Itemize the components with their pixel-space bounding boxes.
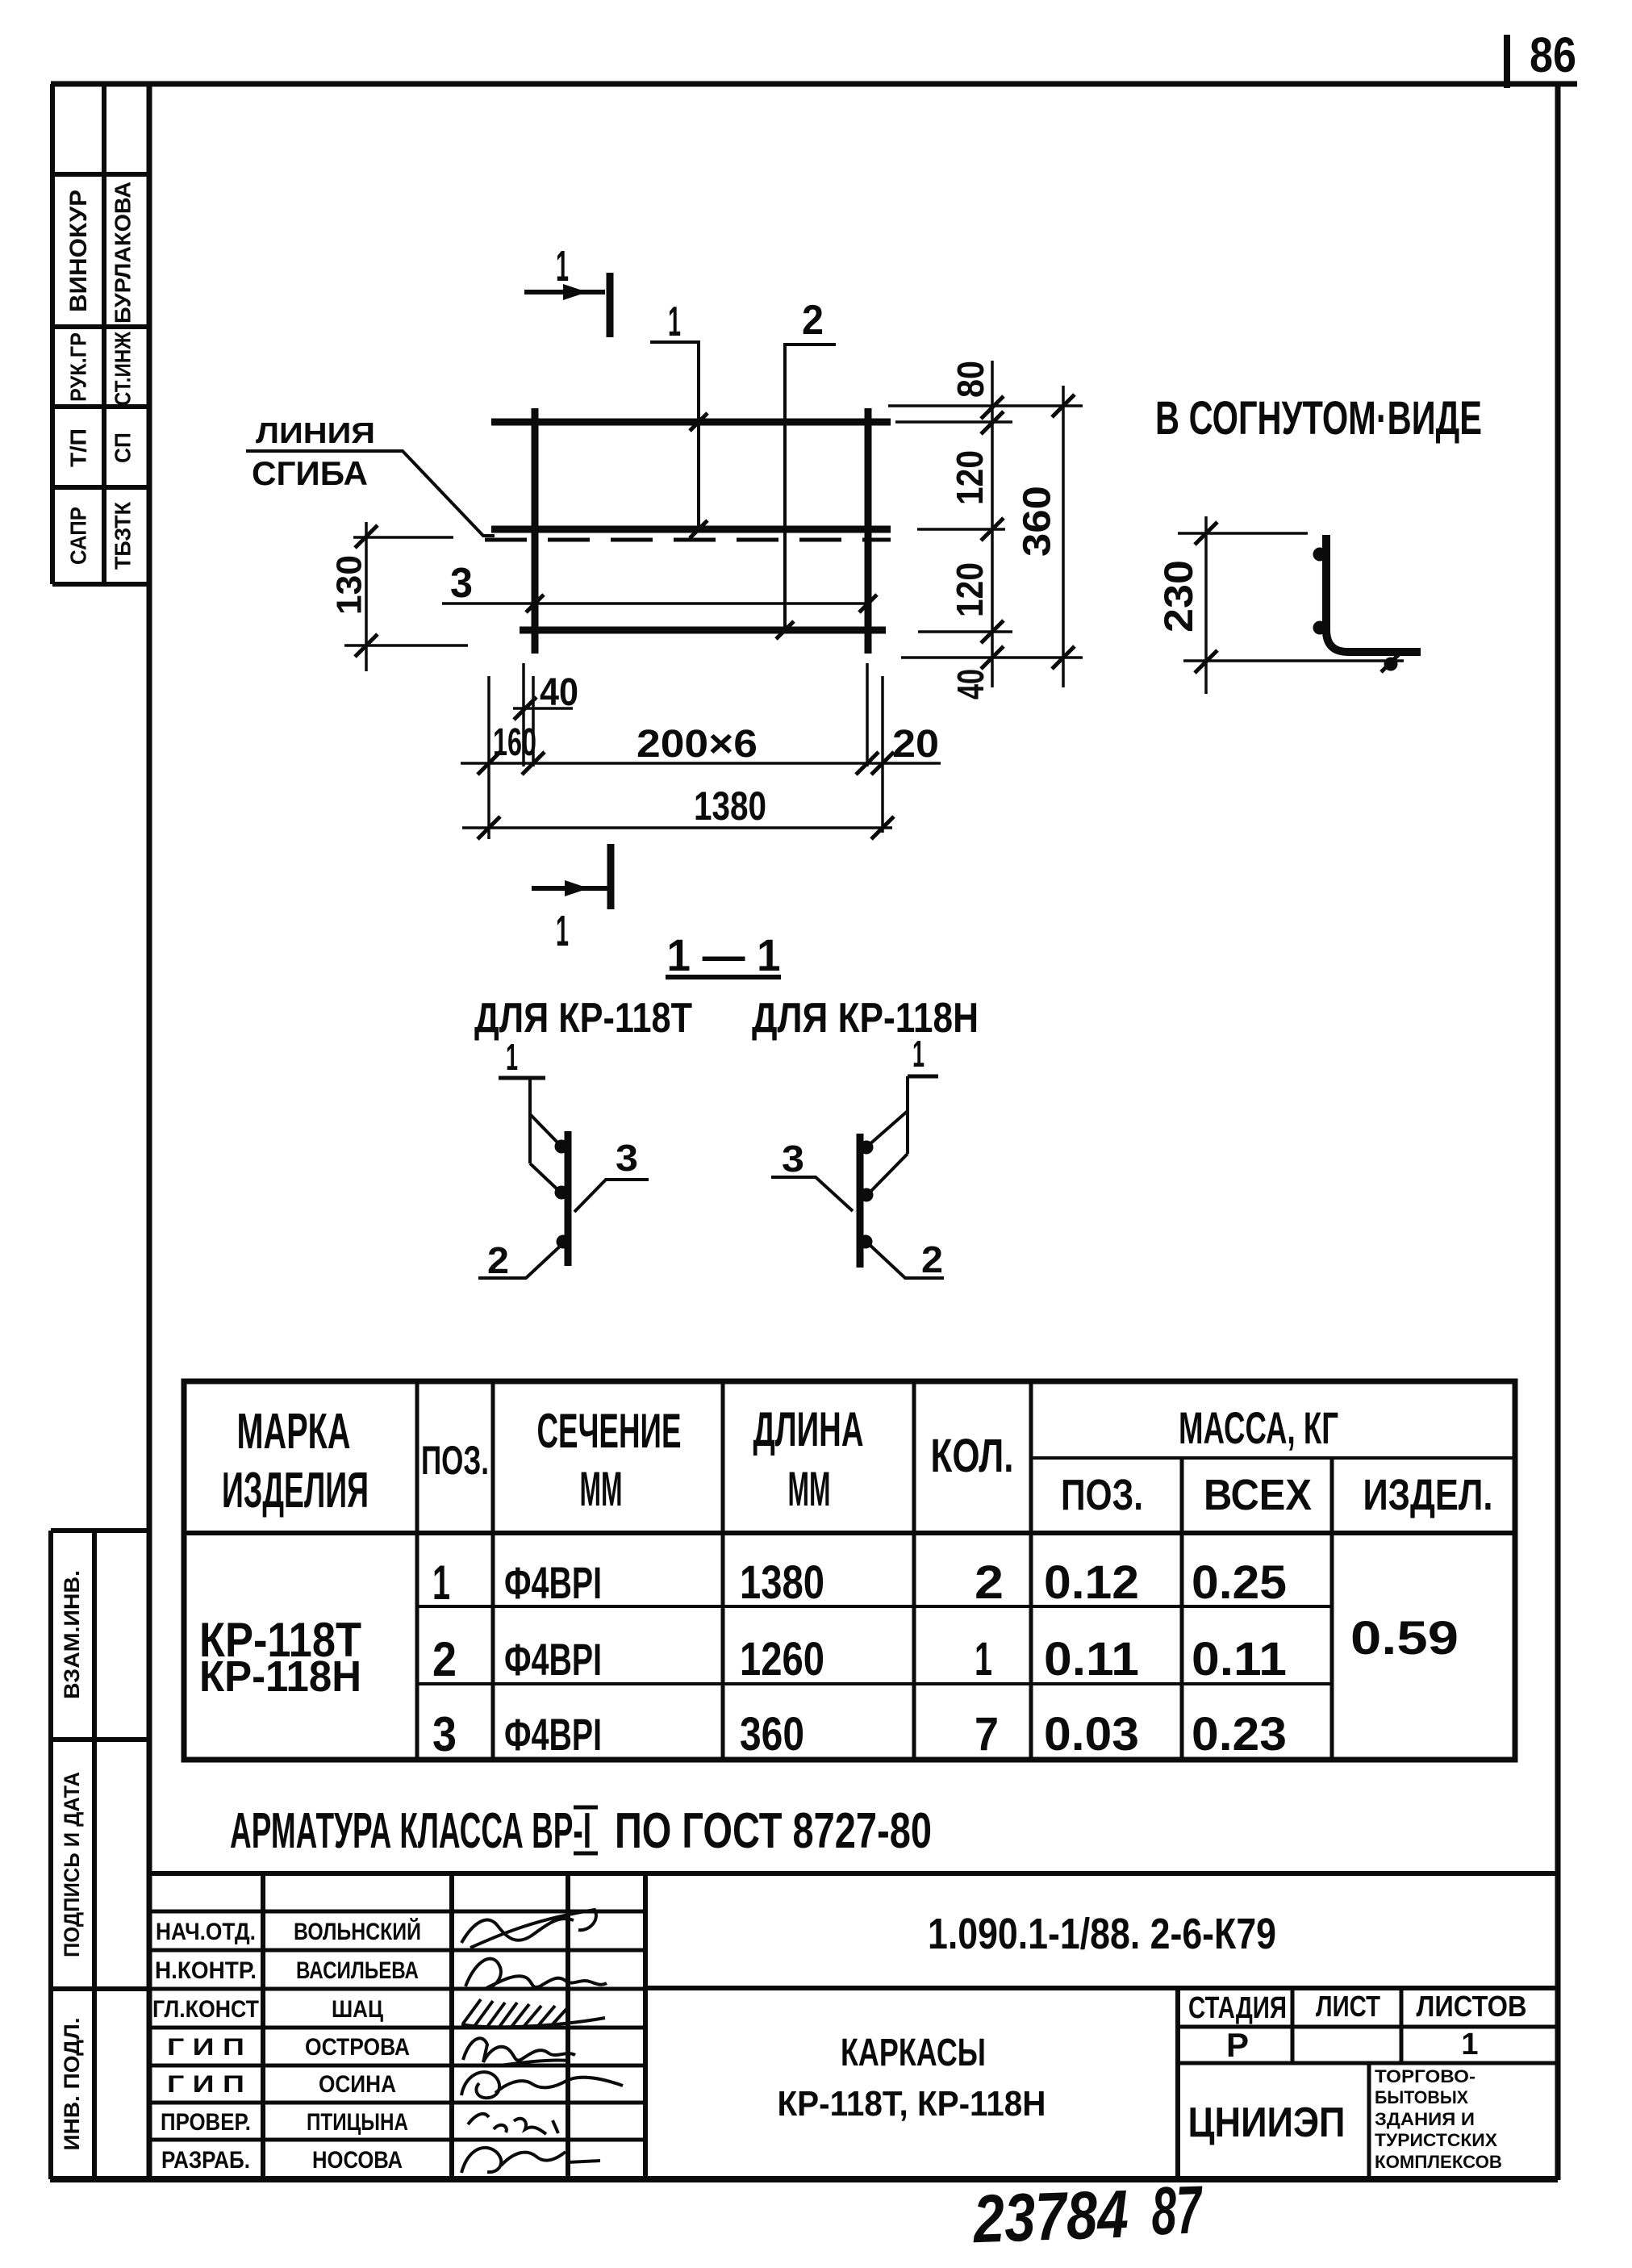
svg-text:ИЗДЕЛ.: ИЗДЕЛ. — [1363, 1471, 1493, 1519]
extension lines (right side) — [888, 406, 1083, 658]
svg-text:СТ.ИНЖ: СТ.ИНЖ — [110, 331, 135, 406]
table header texts — [222, 1402, 1493, 1519]
dimension 130 (left) — [330, 522, 468, 671]
svg-text:НАЧ.ОТД.: НАЧ.ОТД. — [156, 1919, 256, 1945]
cross bar 3 (cut, right figure) — [857, 1134, 864, 1268]
svg-text:ЛИНИЯ: ЛИНИЯ — [256, 416, 375, 449]
svg-text:87: 87 — [1150, 2171, 1204, 2249]
svg-text:2: 2 — [975, 1556, 1004, 1609]
bar position 3 (left cross bar) — [532, 408, 539, 654]
signature ШАЦ — [461, 1999, 605, 2027]
specification table grid — [184, 1381, 1515, 1760]
section mark 1 (top) — [524, 242, 610, 337]
label ЛИНИЯ СГИБА — [252, 416, 375, 492]
svg-text:БЫТОВЫХ: БЫТОВЫХ — [1375, 2087, 1468, 2107]
fold line (dashed) — [485, 538, 891, 542]
svg-text:1: 1 — [556, 242, 569, 290]
section figure KR-118T — [478, 1036, 649, 1281]
dimension line 160 / 200x6 / 20 — [461, 721, 941, 775]
svg-text:Ф4ВРI: Ф4ВРI — [504, 1557, 602, 1608]
svg-text:ПОЗ.: ПОЗ. — [421, 1438, 489, 1483]
svg-text:Т/П: Т/П — [65, 428, 90, 467]
svg-text:КОМПЛЕКСОВ: КОМПЛЕКСОВ — [1375, 2152, 1502, 2172]
svg-text:АРМАТУРА КЛАССА ВР-I: АРМАТУРА КЛАССА ВР-I — [230, 1803, 591, 1859]
svg-text:1 — 1: 1 — 1 — [667, 929, 781, 980]
svg-text:КАРКАСЫ: КАРКАСЫ — [841, 2032, 986, 2074]
svg-text:2: 2 — [921, 1238, 943, 1280]
svg-text:0.12: 0.12 — [1044, 1556, 1139, 1609]
svg-text:Р: Р — [1226, 2026, 1249, 2064]
title block role labels — [152, 1919, 259, 2174]
svg-text:1: 1 — [556, 907, 569, 955]
svg-text:МАССА, КГ: МАССА, КГ — [1179, 1402, 1338, 1453]
svg-text:ВОЛЬНСКИЙ: ВОЛЬНСКИЙ — [294, 1918, 421, 1945]
svg-text:БУРЛАКОВА: БУРЛАКОВА — [110, 182, 135, 324]
svg-text:1: 1 — [506, 1036, 518, 1078]
svg-text:ВЗАМ.ИНВ.: ВЗАМ.ИНВ. — [60, 1570, 84, 1699]
svg-text:В СОГНУТОМ·ВИДЕ: В СОГНУТОМ·ВИДЕ — [1155, 392, 1482, 445]
svg-text:ММ: ММ — [580, 1462, 623, 1516]
table row pos 2 — [432, 1632, 1287, 1686]
dimension 1380 (overall) — [462, 783, 894, 839]
note АРМАТУРА КЛАССА ВР-I ПО ГОСТ 8727-80 — [230, 1803, 932, 1859]
svg-text:ММ: ММ — [788, 1462, 831, 1516]
table row pos 3 — [432, 1707, 1287, 1761]
svg-text:1: 1 — [1461, 2028, 1478, 2061]
svg-text:КОЛ.: КОЛ. — [931, 1430, 1014, 1482]
bent view dimension 230 — [1156, 516, 1404, 694]
title block grid — [148, 1873, 1558, 2179]
svg-text:7: 7 — [975, 1708, 999, 1761]
signature НОСОВА — [461, 2148, 600, 2173]
bar position 1 (second longitudinal bar) — [491, 526, 891, 533]
svg-text:3: 3 — [450, 560, 473, 607]
signature ВОЛЬНСКИЙ — [461, 1910, 596, 1948]
svg-text:200×6: 200×6 — [637, 723, 758, 766]
svg-text:23784: 23784 — [970, 2176, 1129, 2258]
signature ВАСИЛЬЕВА — [465, 1959, 607, 1988]
svg-text:0.11: 0.11 — [1192, 1633, 1287, 1685]
organization department text — [1375, 2066, 1502, 2172]
svg-text:0.25: 0.25 — [1192, 1556, 1287, 1609]
svg-text:НОСОВА: НОСОВА — [312, 2147, 403, 2174]
svg-text:1.090.1-1/88. 2-6-К79: 1.090.1-1/88. 2-6-К79 — [928, 1910, 1276, 1958]
svg-text:Ф4ВРI: Ф4ВРI — [504, 1709, 602, 1760]
svg-text:СГИБА: СГИБА — [252, 454, 368, 492]
svg-text:120: 120 — [949, 450, 991, 505]
svg-text:ШАЦ: ШАЦ — [332, 1996, 383, 2023]
signature ОСИНА — [461, 2072, 623, 2098]
handwritten inventory number 23784 87 — [970, 2171, 1204, 2257]
signature ПТИЦЫНА — [468, 2114, 558, 2134]
bar section dot (upper) — [1313, 548, 1327, 562]
svg-text:Н.КОНТР.: Н.КОНТР. — [155, 1957, 257, 1984]
leader 2 to bottom bar — [776, 297, 836, 639]
svg-text:ЛИСТОВ: ЛИСТОВ — [1417, 1990, 1527, 2023]
svg-text:ПОДПИСЬ И ДАТА: ПОДПИСЬ И ДАТА — [60, 1772, 84, 1957]
svg-text:ПРОВЕР.: ПРОВЕР. — [161, 2109, 251, 2136]
bent bar (L-shape) — [1326, 535, 1421, 652]
cross bar 3 (cut, left figure) — [565, 1131, 572, 1266]
svg-text:ТУРИСТСКИХ: ТУРИСТСКИХ — [1375, 2130, 1497, 2150]
svg-text:0.23: 0.23 — [1192, 1708, 1287, 1761]
svg-text:СЕЧЕНИЕ: СЕЧЕНИЕ — [537, 1404, 682, 1458]
svg-text:1: 1 — [912, 1033, 925, 1075]
svg-text:ТБЗТК: ТБЗТК — [110, 501, 135, 570]
svg-text:160: 160 — [493, 721, 536, 764]
bottom extension lines — [489, 663, 883, 839]
svg-text:3: 3 — [616, 1137, 638, 1179]
svg-text:20: 20 — [892, 723, 939, 766]
section figure KR-118N — [771, 1033, 944, 1280]
svg-text:2: 2 — [802, 297, 824, 344]
svg-text:120: 120 — [949, 562, 991, 617]
svg-text:1380: 1380 — [740, 1556, 824, 1609]
dimension 360 (overall) — [1016, 386, 1075, 687]
svg-text:40: 40 — [950, 669, 991, 700]
svg-text:КР-118Т, КР-118Н: КР-118Т, КР-118Н — [778, 2084, 1046, 2124]
svg-text:СП: СП — [110, 432, 135, 463]
bar section dot (end of leg) — [1384, 658, 1398, 671]
svg-text:1: 1 — [668, 299, 681, 345]
svg-text:ПО ГОСТ 8727-80: ПО ГОСТ 8727-80 — [615, 1803, 932, 1859]
svg-text:ЗДАНИЯ И: ЗДАНИЯ И — [1375, 2109, 1475, 2129]
svg-text:ПОЗ.: ПОЗ. — [1061, 1471, 1143, 1519]
bar 2 section dot (right figure) — [859, 1235, 873, 1249]
svg-text:80: 80 — [950, 361, 991, 398]
svg-text:САПР: САПР — [65, 507, 90, 565]
svg-text:РАЗРАБ.: РАЗРАБ. — [161, 2147, 250, 2174]
leader 1 to longitudinal bars — [650, 299, 707, 538]
svg-text:1380: 1380 — [694, 783, 766, 829]
bottom-left stamp grid — [51, 1531, 149, 2179]
svg-text:ДЛЯ КР-118Н: ДЛЯ КР-118Н — [752, 995, 979, 1042]
svg-text:КР-118Н: КР-118Н — [199, 1652, 361, 1701]
svg-text:СТАДИЯ: СТАДИЯ — [1188, 1991, 1287, 2025]
svg-text:360: 360 — [1016, 486, 1059, 557]
bar 1 section dots (right figure) — [860, 1141, 874, 1155]
svg-text:Г И П: Г И П — [167, 2071, 244, 2098]
section mark 1 (bottom) — [532, 844, 611, 955]
svg-text:0.11: 0.11 — [1044, 1633, 1139, 1685]
svg-text:РУК.ГР: РУК.ГР — [65, 332, 90, 402]
svg-text:2: 2 — [432, 1632, 457, 1686]
svg-text:1260: 1260 — [740, 1633, 824, 1685]
svg-text:ЦНИИЭП: ЦНИИЭП — [1188, 2099, 1346, 2146]
svg-text:3: 3 — [432, 1707, 457, 1761]
svg-text:0.59: 0.59 — [1350, 1612, 1459, 1664]
dimension chain 80/120/120/40 — [949, 361, 1004, 700]
page number 86 — [1507, 27, 1576, 88]
svg-text:Г И П: Г И П — [167, 2034, 244, 2061]
table mark column — [199, 1613, 361, 1701]
svg-text:ИЗДЕЛИЯ: ИЗДЕЛИЯ — [222, 1463, 369, 1518]
signature ОСТРОВА — [463, 2038, 575, 2065]
svg-text:3: 3 — [782, 1138, 804, 1180]
top-left stamp grid — [52, 84, 149, 584]
leader line to fold line — [246, 451, 495, 536]
bar 2 section dot (left figure) — [557, 1235, 570, 1249]
dimension 40 (bottom small) — [513, 671, 578, 720]
svg-text:ВИНОКУР: ВИНОКУР — [65, 190, 92, 312]
svg-text:1: 1 — [975, 1633, 992, 1685]
svg-text:Ф4ВРI: Ф4ВРI — [504, 1634, 602, 1685]
svg-text:ПТИЦЫНА: ПТИЦЫНА — [307, 2109, 408, 2136]
bar 1 section dots (left figure) — [555, 1140, 569, 1154]
bar section dot (lower) — [1313, 621, 1327, 635]
svg-text:ОСИНА: ОСИНА — [319, 2071, 396, 2098]
svg-text:230: 230 — [1156, 560, 1201, 633]
svg-text:1: 1 — [432, 1556, 450, 1610]
svg-text:ДЛЯ КР-118Т: ДЛЯ КР-118Т — [474, 995, 692, 1042]
bar position 2 (bottom longitudinal bar) — [520, 627, 886, 634]
svg-text:ВАСИЛЬЕВА: ВАСИЛЬЕВА — [296, 1957, 419, 1984]
svg-text:ИНВ. ПОДЛ.: ИНВ. ПОДЛ. — [60, 2018, 84, 2151]
svg-text:86: 86 — [1530, 27, 1576, 82]
svg-text:130: 130 — [330, 555, 369, 615]
svg-text:МАРКА: МАРКА — [237, 1404, 351, 1460]
svg-text:ДЛИНА: ДЛИНА — [753, 1402, 864, 1456]
svg-text:0.03: 0.03 — [1044, 1708, 1139, 1761]
svg-text:40: 40 — [540, 671, 578, 714]
svg-text:2: 2 — [487, 1239, 509, 1281]
table row pos 1 — [432, 1556, 1287, 1610]
svg-text:ЛИСТ: ЛИСТ — [1316, 1990, 1380, 2023]
leader 3 to cross bars — [442, 560, 877, 612]
svg-text:ГЛ.КОНСТ: ГЛ.КОНСТ — [152, 1996, 259, 2023]
svg-text:ОСТРОВА: ОСТРОВА — [305, 2034, 410, 2061]
bar position 1 (top longitudinal bar) — [491, 419, 891, 426]
title block names — [294, 1918, 421, 2174]
svg-text:ВСЕХ: ВСЕХ — [1204, 1471, 1312, 1519]
svg-text:360: 360 — [740, 1708, 804, 1761]
section title 1-1 — [666, 929, 781, 980]
svg-text:ТОРГОВО-: ТОРГОВО- — [1375, 2066, 1475, 2086]
bar position 3 (right cross bar) — [865, 408, 872, 654]
